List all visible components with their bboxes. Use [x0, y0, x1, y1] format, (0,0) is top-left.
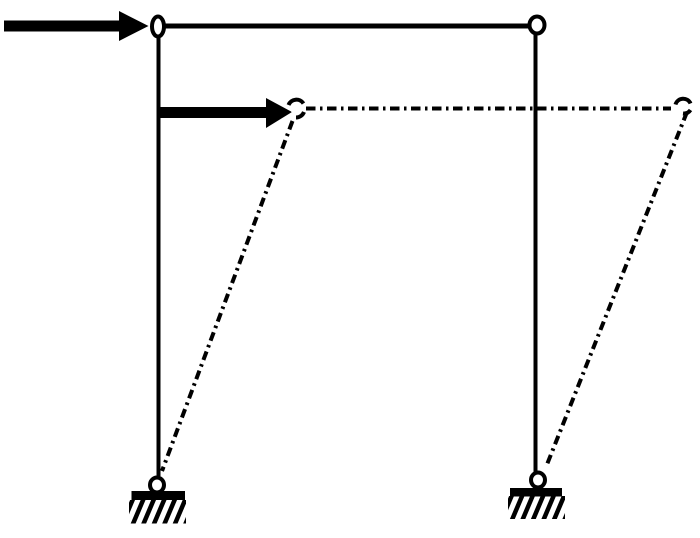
beam top (node A to node B): [162, 24, 532, 29]
support C hatching: [122, 499, 196, 525]
force arrow P2 head: [266, 98, 292, 128]
deflected node B' top arc: [676, 99, 691, 105]
support C pin circle: [150, 478, 164, 493]
deflected beam line A'-B' (dash-dot): [306, 107, 671, 111]
deflected column D-B' (dash-dot diagonal right): [546, 112, 687, 467]
force arrow P2 shaft: [157, 107, 271, 118]
joint node A (pin circle top-left): [152, 17, 164, 37]
deflected node A' mask: [291, 102, 305, 116]
force arrow P1 head: [119, 11, 149, 41]
deflected node B' mask: [676, 98, 691, 113]
force arrow P1 shaft: [4, 21, 124, 32]
column left (node A to support C): [157, 30, 161, 476]
deflected column C-A' (dash-dot diagonal left): [162, 121, 293, 471]
deflected node A' lower-right arc: [296, 112, 304, 118]
deflected node B' lower-right arc: [683, 110, 691, 114]
support C ground bar: [132, 491, 186, 500]
joint node B (pin circle top-right): [530, 17, 545, 34]
support D ground bar: [510, 488, 562, 497]
support D hatching: [501, 495, 575, 521]
deflected node A' top arc: [289, 100, 304, 105]
column right (node B to support D): [534, 30, 538, 473]
support D pin circle: [531, 473, 545, 488]
